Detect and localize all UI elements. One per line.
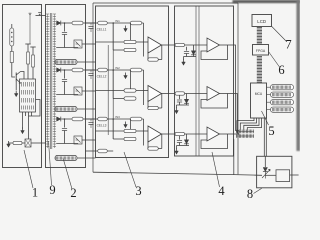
comparator U43	[207, 127, 220, 141]
resistor R32b	[124, 89, 136, 92]
svg-text:LCD: LCD	[257, 19, 266, 24]
resistor R33f	[130, 117, 142, 121]
wire (output)	[162, 44, 175, 46]
wire (connector to output)	[233, 139, 235, 174]
regulator Q21	[74, 40, 82, 48]
leader line 4	[212, 152, 220, 187]
wire	[9, 142, 14, 144]
wire (long output line)	[93, 172, 262, 175]
wire	[237, 118, 254, 130]
wire	[64, 70, 66, 79]
LCD box (element 7)	[252, 15, 272, 27]
wire	[64, 82, 66, 95]
svg-text:CELL1: CELL1	[97, 28, 107, 32]
wire	[130, 119, 132, 131]
wire	[32, 67, 34, 79]
leader line 9	[49, 141, 52, 185]
bus FPGA-MCU	[257, 56, 262, 58]
feedback loop R42f	[201, 94, 228, 109]
wire	[185, 44, 208, 46]
wire	[22, 142, 25, 144]
capacitor C43	[177, 140, 182, 142]
wire	[186, 134, 188, 140]
resistor R31d	[148, 58, 159, 61]
resistor R0	[10, 52, 13, 63]
op-amp U31	[148, 37, 162, 53]
svg-text:8: 8	[247, 187, 253, 200]
ground	[125, 122, 127, 126]
svg-text:1: 1	[32, 186, 38, 200]
wire	[147, 141, 149, 149]
wire	[82, 139, 96, 141]
ground	[125, 26, 127, 30]
MCU box (element 5)	[251, 83, 267, 118]
divider resistor RP1	[27, 52, 30, 64]
wire	[29, 100, 41, 117]
zener D41	[191, 51, 195, 55]
svg-text:9: 9	[49, 183, 55, 197]
wire	[185, 133, 208, 135]
svg-text:4: 4	[218, 184, 225, 198]
wire	[77, 61, 96, 63]
wire	[186, 47, 188, 51]
svg-text:IN2: IN2	[115, 66, 120, 70]
driver Q8	[263, 168, 267, 172]
relay K1	[276, 170, 290, 182]
bus LCD-FPGA	[257, 27, 262, 29]
wire	[265, 174, 276, 176]
node IN3	[112, 118, 114, 120]
comparator U41	[207, 38, 220, 52]
resistor R33d	[148, 147, 159, 150]
wire	[240, 118, 256, 130]
resistor R41	[175, 43, 185, 46]
resistor R31a	[98, 21, 108, 25]
wire (vertical bus IN)	[112, 23, 114, 139]
wire	[11, 46, 13, 52]
svg-text:7: 7	[285, 38, 291, 52]
block 1 box (power supply unit)	[3, 5, 42, 168]
wire (channel 2 return)	[56, 94, 78, 96]
wire	[247, 118, 261, 130]
svg-text:CELL2: CELL2	[97, 75, 107, 79]
wire (channel 1 rail)	[55, 22, 57, 24]
capacitor C42	[177, 99, 182, 101]
wire (vertical bus aux)	[107, 45, 109, 135]
junction	[130, 69, 132, 71]
connector J1	[236, 130, 238, 134]
wire	[177, 145, 190, 147]
wire (cell 3 tap)	[86, 118, 99, 120]
svg-text:IN1: IN1	[115, 19, 120, 23]
resistor R33b	[124, 129, 136, 132]
resistor R43	[175, 132, 185, 135]
junction	[130, 118, 132, 120]
svg-text:MCU: MCU	[255, 92, 263, 96]
svg-text:5: 5	[268, 124, 274, 138]
ground	[183, 59, 185, 63]
resistor R32d	[148, 106, 159, 109]
diode D2	[57, 68, 61, 72]
wire (bus 2)	[112, 70, 114, 99]
wire	[31, 142, 46, 144]
wire	[136, 130, 148, 132]
wire (to driver)	[265, 118, 267, 156]
wire	[130, 23, 132, 42]
node IN2	[112, 69, 114, 71]
block 2 box (transformer rectifier unit)	[46, 5, 86, 168]
wire	[64, 23, 66, 32]
wire	[64, 119, 66, 128]
ground	[15, 91, 17, 95]
regulator Q22	[74, 87, 82, 95]
junction	[130, 22, 132, 24]
switch S1	[25, 139, 31, 147]
wire (to driver)	[263, 118, 265, 156]
regulator Q23	[74, 136, 82, 144]
svg-text:6: 6	[278, 63, 284, 77]
wire (channel 2 rail)	[55, 69, 57, 71]
voltage divider string RV1	[10, 28, 14, 46]
wire	[96, 41, 125, 43]
capacitor C22	[62, 79, 67, 81]
block 8 box (output relay unit)	[257, 156, 292, 188]
capacitor C31	[90, 23, 92, 25]
scan shadow right edge	[296, 0, 300, 151]
capacitor C23	[62, 128, 67, 130]
wire (out3)	[234, 133, 239, 136]
wire	[136, 90, 148, 92]
wire	[55, 61, 56, 63]
leader line 6	[269, 52, 280, 67]
leader line 8	[254, 188, 262, 193]
ground	[22, 128, 24, 132]
wire	[77, 157, 96, 159]
leader line 1	[24, 150, 33, 188]
probe P2 top bar	[30, 46, 35, 48]
terminal mark E2	[38, 12, 41, 14]
wire	[179, 95, 181, 99]
wire	[96, 90, 125, 92]
scan shadow top edge	[233, 0, 301, 3]
wire (bus 3)	[112, 119, 114, 139]
resistor R33c	[124, 137, 136, 140]
wire (out2)	[234, 94, 239, 134]
resistor R42	[175, 92, 185, 95]
resistor R34a	[98, 149, 108, 153]
resistor R31b	[124, 40, 136, 43]
interface port bar 2	[271, 92, 294, 97]
resistor R33a	[98, 117, 108, 121]
leader line 7	[272, 27, 287, 42]
op-amp U32	[148, 86, 162, 102]
wire	[147, 100, 149, 108]
capacitor C33	[90, 119, 92, 121]
wire (output)	[220, 93, 235, 95]
wire	[64, 131, 66, 144]
feedback loop R43f	[201, 134, 228, 149]
power rail V+	[195, 6, 197, 156]
resistor R32f	[130, 68, 142, 72]
wire	[55, 157, 56, 159]
wire	[185, 93, 208, 95]
resistor R31f	[130, 21, 142, 25]
wire (cell 4 tap)	[86, 150, 99, 152]
leader line 5	[262, 111, 269, 125]
wire (channel 3 rail)	[55, 118, 57, 120]
wire	[179, 136, 181, 140]
svg-text:CELL3: CELL3	[97, 124, 107, 128]
isolator U22	[55, 107, 77, 112]
isolator U23	[55, 156, 77, 161]
block 4 box (comparator unit)	[175, 6, 234, 156]
wire (cell 1 tap)	[86, 22, 99, 24]
wire	[147, 52, 149, 60]
terminal mark E1	[29, 12, 32, 14]
transistor Q1	[15, 73, 17, 82]
ground	[176, 108, 178, 112]
sampling IC U1	[20, 79, 36, 112]
wire	[290, 174, 299, 176]
resistor R32c	[124, 97, 136, 100]
resistor R21	[72, 21, 83, 25]
wire	[136, 41, 148, 43]
wire	[82, 90, 96, 92]
resistor R32a	[98, 68, 108, 72]
resistor R22	[72, 68, 83, 72]
divider resistor RP2	[32, 55, 35, 67]
wire	[82, 43, 96, 45]
wire	[64, 35, 66, 48]
wire	[177, 104, 190, 106]
interface port bar 4	[271, 107, 294, 112]
ground	[125, 73, 127, 77]
wire	[244, 118, 259, 130]
op-amp U33	[148, 126, 162, 142]
wire	[27, 64, 29, 79]
interface port bar 1	[271, 85, 294, 90]
fuse F1	[13, 141, 22, 144]
zener D43	[184, 140, 188, 144]
comparator U42	[207, 87, 220, 101]
wire	[264, 156, 266, 167]
ground	[176, 148, 178, 152]
capacitor C32	[90, 70, 92, 72]
probe P1 top bar	[25, 43, 30, 45]
isolator U21	[55, 60, 77, 65]
wire	[21, 72, 25, 80]
wire (bus 1)	[112, 23, 114, 50]
svg-text:2: 2	[70, 186, 76, 200]
svg-text:3: 3	[135, 184, 141, 198]
diode D1	[57, 21, 61, 25]
wire	[22, 112, 24, 129]
interface port bar 3	[271, 100, 294, 105]
wire	[36, 15, 46, 17]
block 3-4 outer box (detection board)	[93, 2, 238, 4]
resistor R31c	[124, 48, 136, 51]
block 3 box (amplifier unit)	[96, 6, 169, 158]
capacitor C21	[62, 32, 67, 34]
wire	[130, 70, 132, 91]
svg-text:FPGA: FPGA	[256, 49, 266, 53]
ground	[8, 141, 10, 145]
wire (output)	[162, 93, 175, 95]
wire	[193, 45, 195, 51]
wire	[96, 130, 125, 132]
resistor R23	[72, 117, 83, 121]
wire (output)	[162, 133, 175, 135]
wire (out1)	[234, 45, 239, 131]
wire	[12, 63, 15, 78]
wire	[55, 108, 56, 110]
wire	[184, 56, 197, 58]
wire (channel 3 return)	[56, 143, 78, 145]
FPGA box (element 6)	[253, 45, 269, 56]
capacitor C41	[184, 51, 189, 53]
wire (output)	[220, 44, 235, 46]
wire (channel 1 return)	[56, 47, 78, 49]
wire (output)	[220, 133, 235, 135]
zener D42	[184, 99, 188, 103]
feedback loop R41f	[201, 45, 228, 60]
leader line 3	[124, 152, 136, 187]
wire	[186, 94, 188, 100]
power rail V-	[198, 6, 200, 156]
node IN1	[112, 22, 114, 24]
leader line 2	[63, 158, 72, 189]
wire	[15, 82, 17, 91]
wire (cell 2 tap)	[86, 69, 99, 71]
svg-text:IN3: IN3	[115, 115, 120, 119]
transformer T1 (element 9)	[49, 13, 51, 149]
diode D3	[57, 117, 61, 121]
wire	[77, 108, 96, 110]
